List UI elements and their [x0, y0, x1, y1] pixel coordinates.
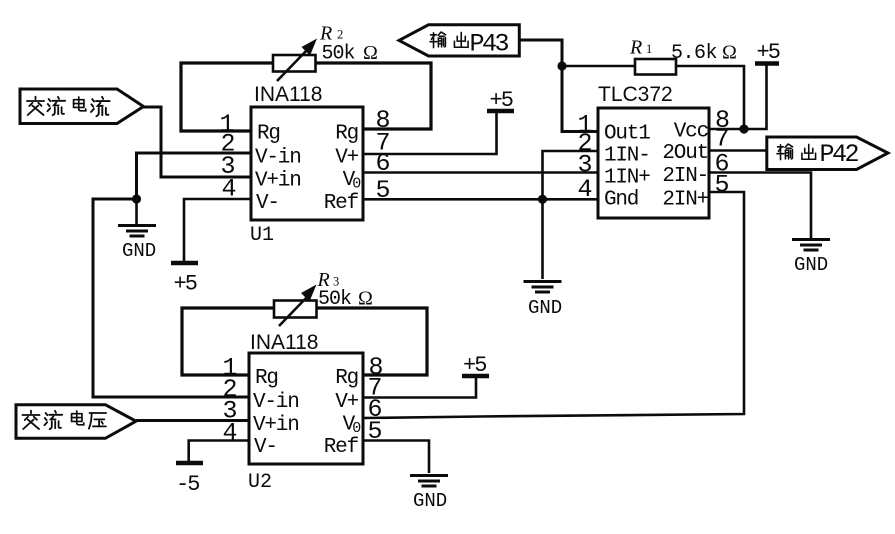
node junction at Out1/R1/P43	[557, 61, 566, 70]
svg-text:50k: 50k	[318, 288, 351, 311]
svg-text:V-in: V-in	[253, 391, 299, 414]
svg-text:V+in: V+in	[253, 414, 299, 437]
wire P43 flag to node	[519, 40, 562, 66]
wire TLC372 pin8 to +5	[709, 65, 767, 129]
node junction at R1 right / Vcc	[739, 124, 748, 133]
svg-text:TLC372: TLC372	[598, 83, 673, 106]
svg-text:V-in: V-in	[255, 147, 301, 170]
svg-text:INA118: INA118	[254, 83, 323, 106]
svg-text:0: 0	[352, 176, 361, 193]
wire U1 pin4 to +5 below	[184, 199, 251, 261]
wire R1 right to Vcc node	[676, 66, 744, 129]
svg-text:+5: +5	[174, 272, 197, 297]
ground GND at U2 Ref	[410, 476, 448, 513]
resistor R2 50k potentiometer	[273, 23, 378, 82]
wire TLC372 pin2 to ground rail	[543, 151, 599, 279]
wire U2 pin5 to GND	[363, 441, 429, 474]
svg-text:Rg: Rg	[255, 367, 278, 390]
ground GND under TLC372	[524, 282, 563, 320]
wire TLC372 pin7 to P42 flag	[709, 149, 767, 152]
svg-text:Out1: Out1	[604, 123, 650, 146]
wire U2 pin1 to R3 left	[182, 308, 275, 375]
op-amp U1 INA118	[219, 83, 390, 247]
svg-text:2IN-: 2IN-	[662, 165, 708, 188]
svg-text:R: R	[319, 23, 332, 45]
wire AC-voltage flag to U2 pin3	[136, 419, 249, 422]
svg-text:Rg: Rg	[335, 367, 358, 390]
svg-text:V+: V+	[335, 147, 358, 170]
power -5 at U2 pin4	[176, 463, 203, 497]
svg-text:Ref: Ref	[324, 192, 359, 215]
output flag 输出P42	[767, 137, 888, 170]
svg-text:U1: U1	[250, 224, 274, 247]
svg-text:Vcc: Vcc	[674, 121, 709, 144]
svg-text:Ω: Ω	[363, 42, 378, 64]
wire node to R1 left	[562, 65, 635, 68]
wire U1 pin2 to ground junction	[137, 153, 252, 199]
svg-text:+5: +5	[463, 353, 486, 378]
svg-text:Rg: Rg	[257, 123, 280, 146]
svg-text:V+: V+	[335, 391, 358, 414]
svg-text:U2: U2	[248, 471, 272, 494]
svg-text:INA118: INA118	[250, 331, 319, 354]
resistor R3 50k potentiometer	[274, 269, 373, 326]
svg-text:1IN-: 1IN-	[604, 145, 650, 168]
wire U2 pin4 to -5	[189, 441, 249, 462]
wire group	[93, 40, 811, 473]
node junction at U1 ground	[132, 194, 141, 203]
input flag 交流电流	[20, 89, 144, 124]
svg-text:Gnd: Gnd	[604, 189, 638, 212]
wire R2 right to U1 pin8	[315, 63, 431, 129]
svg-text:V+in: V+in	[255, 170, 301, 193]
wire AC-current flag to U1 pin3	[143, 107, 251, 177]
svg-text:2IN+: 2IN+	[662, 189, 708, 212]
svg-text:3: 3	[333, 275, 339, 289]
resistor R1 5.6k	[629, 37, 737, 75]
svg-text:Rg: Rg	[335, 123, 358, 146]
ground GND under U1 input	[118, 226, 156, 263]
power +5 at U1 pin7	[487, 88, 514, 113]
wire node down to TLC372 pin1	[562, 66, 598, 132]
svg-text:P42: P42	[820, 140, 859, 169]
svg-text:4: 4	[222, 419, 237, 448]
wire U1 pin6 to TLC372 pin3	[363, 171, 598, 174]
svg-text:1: 1	[646, 42, 652, 56]
svg-text:+5: +5	[757, 40, 780, 65]
ground GND at P42	[792, 240, 830, 277]
svg-text:1IN+: 1IN+	[604, 167, 650, 190]
wire +5 to U1 pin7	[363, 112, 497, 154]
op-amp U2 INA118	[222, 331, 383, 494]
wire R3 right to U2 pin8	[317, 308, 427, 375]
power +5 at TLC372 Vcc	[755, 40, 780, 65]
power +5 at U1 pin4	[171, 263, 198, 297]
svg-text:+5: +5	[490, 88, 513, 113]
svg-text:5: 5	[714, 171, 729, 200]
svg-text:R: R	[629, 37, 642, 59]
svg-text:Ω: Ω	[358, 287, 373, 309]
svg-text:5: 5	[375, 176, 390, 205]
wire U1 pin1 to R2 left	[181, 63, 274, 131]
svg-text:50k: 50k	[322, 43, 355, 66]
node junction at TLC372 gnd rail	[538, 195, 547, 204]
wire TLC372 pin5 to U2 pin6	[363, 192, 744, 418]
svg-text:2: 2	[337, 28, 343, 42]
wire junction to U2 pin2	[93, 199, 249, 397]
wire +5 to U2 pin7	[363, 377, 476, 398]
svg-text:GND: GND	[528, 297, 562, 319]
wire U1 pin5 to TLC372 pin4	[363, 198, 598, 201]
wire TLC372 pin6 to GND	[709, 173, 811, 239]
svg-text:Ref: Ref	[324, 436, 359, 459]
svg-text:2Out: 2Out	[662, 142, 708, 165]
svg-text:Ω: Ω	[722, 41, 737, 63]
wire junction to GND symbol	[135, 199, 138, 224]
output flag 输出P43	[399, 25, 519, 59]
svg-text:V-: V-	[256, 192, 279, 215]
svg-text:P43: P43	[470, 30, 509, 59]
input flag 交流电压	[16, 405, 136, 439]
svg-text:GND: GND	[413, 490, 447, 512]
comparator TLC372	[577, 83, 730, 218]
svg-text:V-: V-	[254, 436, 277, 459]
svg-text:5.6k: 5.6k	[671, 42, 717, 65]
svg-text:GND: GND	[122, 240, 156, 262]
svg-text:GND: GND	[794, 254, 828, 276]
svg-text:0: 0	[352, 420, 361, 437]
svg-text:-5: -5	[176, 472, 199, 497]
power +5 at U2 pin7	[462, 353, 489, 378]
